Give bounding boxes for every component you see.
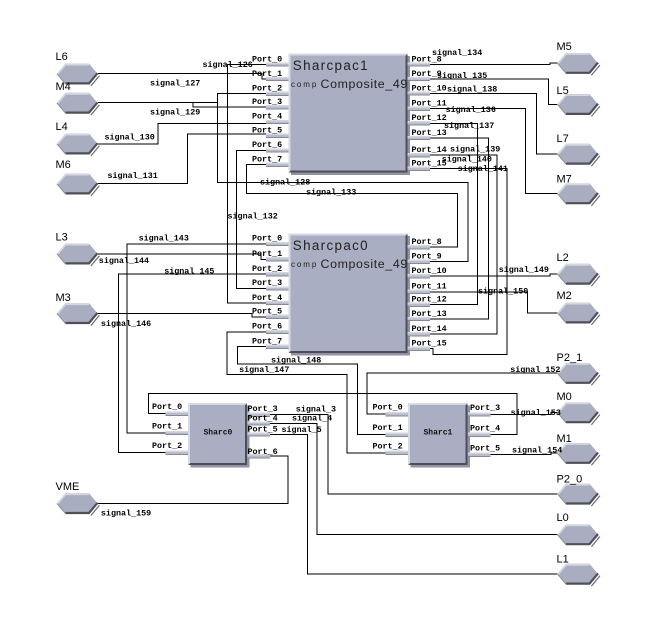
svg-text:Port_7: Port_7 <box>252 337 282 347</box>
svg-text:signal_126: signal_126 <box>203 60 253 70</box>
wire signal_5: Sharc0 Port_5 to L1 <box>269 434 558 574</box>
Sharc0 right ports (pin stubs) <box>248 413 270 459</box>
svg-text:signal_137: signal_137 <box>444 121 494 131</box>
Sharcpac1 left ports (pin stubs) <box>266 62 288 166</box>
wire signal_128: Sharcpac1 Port_2 down to Sharcpac0 Port_9 <box>218 94 468 262</box>
wire signal_126/signal_132 trunk: Sharcpac1 Port_0 to Sharcpac0 Port_4 <box>227 65 266 304</box>
svg-text:M3: M3 <box>56 292 71 304</box>
svg-text:Port_1: Port_1 <box>252 69 282 79</box>
svg-text:Port_10: Port_10 <box>412 83 447 93</box>
svg-text:Port_12: Port_12 <box>412 294 447 304</box>
svg-text:M6: M6 <box>56 159 71 171</box>
svg-text:signal_145: signal_145 <box>164 267 214 277</box>
svg-text:Port_5: Port_5 <box>252 307 282 317</box>
svg-text:Port_14: Port_14 <box>412 145 447 155</box>
svg-text:Port_4: Port_4 <box>248 413 278 423</box>
svg-text:Port_3: Port_3 <box>252 97 282 107</box>
svg-text:L5: L5 <box>557 85 569 97</box>
svg-text:signal_128: signal_128 <box>260 178 310 188</box>
wire signal_149: Sharcpac0 Port_10 to L2 <box>429 274 558 276</box>
Sharcpac0 right ports (pin stubs) <box>408 245 430 351</box>
svg-text:L3: L3 <box>56 232 68 244</box>
svg-text:Port_5: Port_5 <box>248 425 278 435</box>
svg-text:Port_9: Port_9 <box>412 252 442 262</box>
Sharc0 left ports (pin stubs) <box>166 412 188 455</box>
svg-text:M4: M4 <box>56 81 71 93</box>
svg-text:signal_149: signal_149 <box>499 265 549 275</box>
svg-text:L2: L2 <box>557 252 569 264</box>
svg-text:L7: L7 <box>557 133 569 145</box>
wire signal_146: M3 to Sharcpac0 Port_5 <box>98 313 267 317</box>
svg-text:comp: comp <box>291 80 318 89</box>
svg-text:L6: L6 <box>56 51 68 63</box>
port M2 (hexagon terminal) <box>558 303 600 325</box>
wire signal_133: Sharcpac1 Port_7 to Sharcpac0 Port_8 <box>247 165 458 248</box>
wire signal_131: M6 to Sharcpac1 Port_5 <box>98 134 267 184</box>
svg-text:Port_2: Port_2 <box>373 441 403 451</box>
svg-text:signal_4: signal_4 <box>292 414 332 424</box>
wire signal_130: L4 to Sharcpac1 Port_4 <box>98 123 267 144</box>
port P2_1 (hexagon terminal) <box>558 363 600 385</box>
wire signal_150: Sharcpac0 Port_11 to M2 <box>429 292 558 313</box>
svg-text:signal_143: signal_143 <box>139 234 189 244</box>
svg-text:Port_0: Port_0 <box>252 54 282 64</box>
wire Sharcpac1 Port_6 to Sharcpac0 Port_3 <box>237 150 267 288</box>
port M7 (hexagon terminal) <box>558 183 600 205</box>
svg-text:L4: L4 <box>56 121 68 133</box>
wire signal_138: Sharcpac1 Port_10 to L7 <box>429 94 558 155</box>
svg-text:P2_0: P2_0 <box>557 473 583 485</box>
port L4 (hexagon terminal) <box>57 134 99 156</box>
svg-text:signal_159: signal_159 <box>101 509 151 519</box>
port M3 (hexagon terminal) <box>57 303 99 325</box>
wire signal_140: Sharcpac1 Port_14 to Sharcpac0 Port_14 <box>429 155 498 334</box>
port L6 (hexagon terminal) <box>57 64 99 86</box>
svg-text:M1: M1 <box>557 433 572 445</box>
wire signal_159: VME to Sharc0 Port_6 <box>98 456 288 503</box>
port L7 (hexagon terminal) <box>558 144 600 166</box>
svg-text:M7: M7 <box>557 174 572 186</box>
port VME (hexagon terminal) <box>57 493 99 515</box>
port M0 (hexagon terminal) <box>558 402 600 424</box>
wire L6 to Sharcpac1 Port_1 (signal_126 run) <box>98 74 267 80</box>
svg-text:signal_131: signal_131 <box>108 171 158 181</box>
Sharcpac0 left ports (pin stubs) <box>266 242 288 349</box>
wire Sharc0 Port_0 to Sharc1 Port_4 <box>148 394 517 435</box>
svg-text:M2: M2 <box>557 290 572 302</box>
wire signal_3: Sharc0 Port_3 to P2_0 <box>269 415 558 494</box>
wire signal_4: Sharc0 Port_4 to L0 <box>269 424 558 535</box>
wire M4 stub run <box>98 103 218 108</box>
svg-text:M5: M5 <box>557 41 572 53</box>
svg-text:Port_1: Port_1 <box>373 423 403 433</box>
svg-text:signal_139: signal_139 <box>450 145 500 155</box>
block Sharc0 <box>188 403 250 468</box>
block Sharcpac0 <box>289 234 411 356</box>
svg-text:signal_154: signal_154 <box>512 446 562 456</box>
svg-text:Port_6: Port_6 <box>248 447 278 457</box>
Sharc1 right ports (pin stubs) <box>468 412 490 457</box>
svg-text:Composite_49: Composite_49 <box>321 77 408 91</box>
svg-text:signal_134: signal_134 <box>432 48 482 58</box>
svg-text:signal_144: signal_144 <box>99 256 149 266</box>
port L3 (hexagon terminal) <box>57 244 99 266</box>
svg-text:Port_6: Port_6 <box>252 322 282 332</box>
svg-text:Port_7: Port_7 <box>252 154 282 164</box>
Sharcpac1 right ports (pin stubs) <box>408 62 430 171</box>
svg-text:Port_1: Port_1 <box>252 249 282 259</box>
port P2_0 (hexagon terminal) <box>558 484 600 506</box>
svg-text:signal_141: signal_141 <box>458 164 508 174</box>
wire signal_144: L3 to Sharcpac0 Port_1 <box>98 254 267 259</box>
svg-text:signal_146: signal_146 <box>101 319 151 329</box>
svg-text:Port_3: Port_3 <box>470 403 500 413</box>
block Sharc1 <box>408 403 470 468</box>
svg-text:signal_153: signal_153 <box>511 408 561 418</box>
svg-text:L0: L0 <box>557 512 569 524</box>
svg-text:Port_0: Port_0 <box>152 402 182 412</box>
wire signal_129 into Sharcpac1 Port_3 <box>193 103 267 108</box>
svg-text:Port_4: Port_4 <box>252 112 282 122</box>
svg-text:Port_14: Port_14 <box>412 324 447 334</box>
svg-text:signal_150: signal_150 <box>478 287 528 297</box>
port M5 (hexagon terminal) <box>558 53 600 75</box>
svg-text:signal_132: signal_132 <box>228 212 278 222</box>
svg-text:signal_136: signal_136 <box>446 105 496 115</box>
svg-text:Port_6: Port_6 <box>252 140 282 150</box>
wire signal_154: Sharc1 Port_5 to M1 <box>490 453 558 454</box>
svg-text:P2_1: P2_1 <box>557 352 583 364</box>
wire signal_145: Sharcpac0 Port_2 to Sharc0 Port_2 <box>119 274 267 453</box>
svg-text:Port_13: Port_13 <box>412 128 447 138</box>
wire signal_147: Sharcpac0 Port_6 to Sharc1 Port_2 <box>227 332 385 453</box>
svg-text:Sharc0: Sharc0 <box>204 428 233 437</box>
svg-text:Port_0: Port_0 <box>252 234 282 244</box>
svg-text:VME: VME <box>56 481 80 493</box>
port M4 (hexagon terminal) <box>57 93 99 115</box>
port M1 (hexagon terminal) <box>558 443 600 465</box>
port L5 (hexagon terminal) <box>558 94 600 116</box>
svg-text:signal_148: signal_148 <box>271 356 321 366</box>
wire signal_135: Sharcpac1 Port_9 to L5 <box>429 79 558 104</box>
svg-text:Port_15: Port_15 <box>412 339 447 349</box>
svg-text:Sharcpac0: Sharcpac0 <box>293 238 369 253</box>
svg-text:L1: L1 <box>557 554 569 566</box>
svg-text:Port_1: Port_1 <box>152 422 182 432</box>
svg-text:Port_12: Port_12 <box>412 113 447 123</box>
svg-text:Composite_49: Composite_49 <box>321 257 408 271</box>
svg-text:comp: comp <box>291 260 318 269</box>
svg-text:Port_2: Port_2 <box>152 441 182 451</box>
svg-text:Port_2: Port_2 <box>252 264 282 274</box>
svg-text:signal_138: signal_138 <box>447 85 497 95</box>
port L2 (hexagon terminal) <box>558 264 600 286</box>
svg-text:Port_11: Port_11 <box>412 99 447 109</box>
port L1 (hexagon terminal) <box>558 564 600 586</box>
wire signal_139: Sharcpac1 Port_13 to Sharcpac0 Port_13 <box>429 138 489 319</box>
svg-text:Port_13: Port_13 <box>412 309 447 319</box>
wire signal_134: Sharcpac1 Port_8 to M5 <box>429 63 558 64</box>
svg-text:Port_2: Port_2 <box>252 84 282 94</box>
wire signal_152: Sharc1 Port_0 to P2_1 <box>367 373 558 414</box>
wire signal_143: Sharcpac0 Port_0 to Sharc0 Port_1 <box>127 244 266 433</box>
svg-text:M0: M0 <box>557 391 572 403</box>
svg-text:Port_11: Port_11 <box>412 282 447 292</box>
svg-text:signal_5: signal_5 <box>282 425 322 435</box>
wire signal_148: Sharcpac0 Port_7 to Sharc1 Port_1 <box>237 347 385 435</box>
block Sharcpac1 <box>289 54 411 176</box>
svg-text:signal_147: signal_147 <box>239 365 289 375</box>
wire signal_153: Sharc1 Port_3 to M0 <box>490 413 558 415</box>
Sharc1 left ports (pin stubs) <box>386 412 408 455</box>
wire signal_136: Sharcpac1 Port_11 to M7 <box>429 109 558 194</box>
wire signal_137: Sharcpac1 Port_12 to Sharcpac0 Port_12 <box>429 123 478 304</box>
wire signal_141: Sharcpac1 Port_15 to Sharcpac0 Port_15 <box>429 169 508 355</box>
svg-text:Port_3: Port_3 <box>252 278 282 288</box>
svg-text:Sharc1: Sharc1 <box>424 428 453 437</box>
svg-text:Sharcpac1: Sharcpac1 <box>293 58 369 73</box>
svg-text:Port_10: Port_10 <box>412 266 447 276</box>
port L0 (hexagon terminal) <box>558 524 600 546</box>
svg-text:signal_140: signal_140 <box>442 155 492 165</box>
svg-text:Port_5: Port_5 <box>470 443 500 453</box>
svg-text:signal_135: signal_135 <box>437 71 487 81</box>
svg-text:signal_152: signal_152 <box>510 365 560 375</box>
svg-text:Port_8: Port_8 <box>412 237 442 247</box>
svg-text:signal_129: signal_129 <box>150 108 200 118</box>
svg-text:Port_5: Port_5 <box>252 126 282 136</box>
svg-text:Port_4: Port_4 <box>470 423 500 433</box>
svg-text:Port_4: Port_4 <box>252 293 282 303</box>
svg-text:Port_0: Port_0 <box>373 403 403 413</box>
port M6 (hexagon terminal) <box>57 174 99 196</box>
svg-text:signal_127: signal_127 <box>150 79 200 89</box>
svg-text:signal_130: signal_130 <box>105 133 155 143</box>
svg-text:signal_133: signal_133 <box>306 188 356 198</box>
